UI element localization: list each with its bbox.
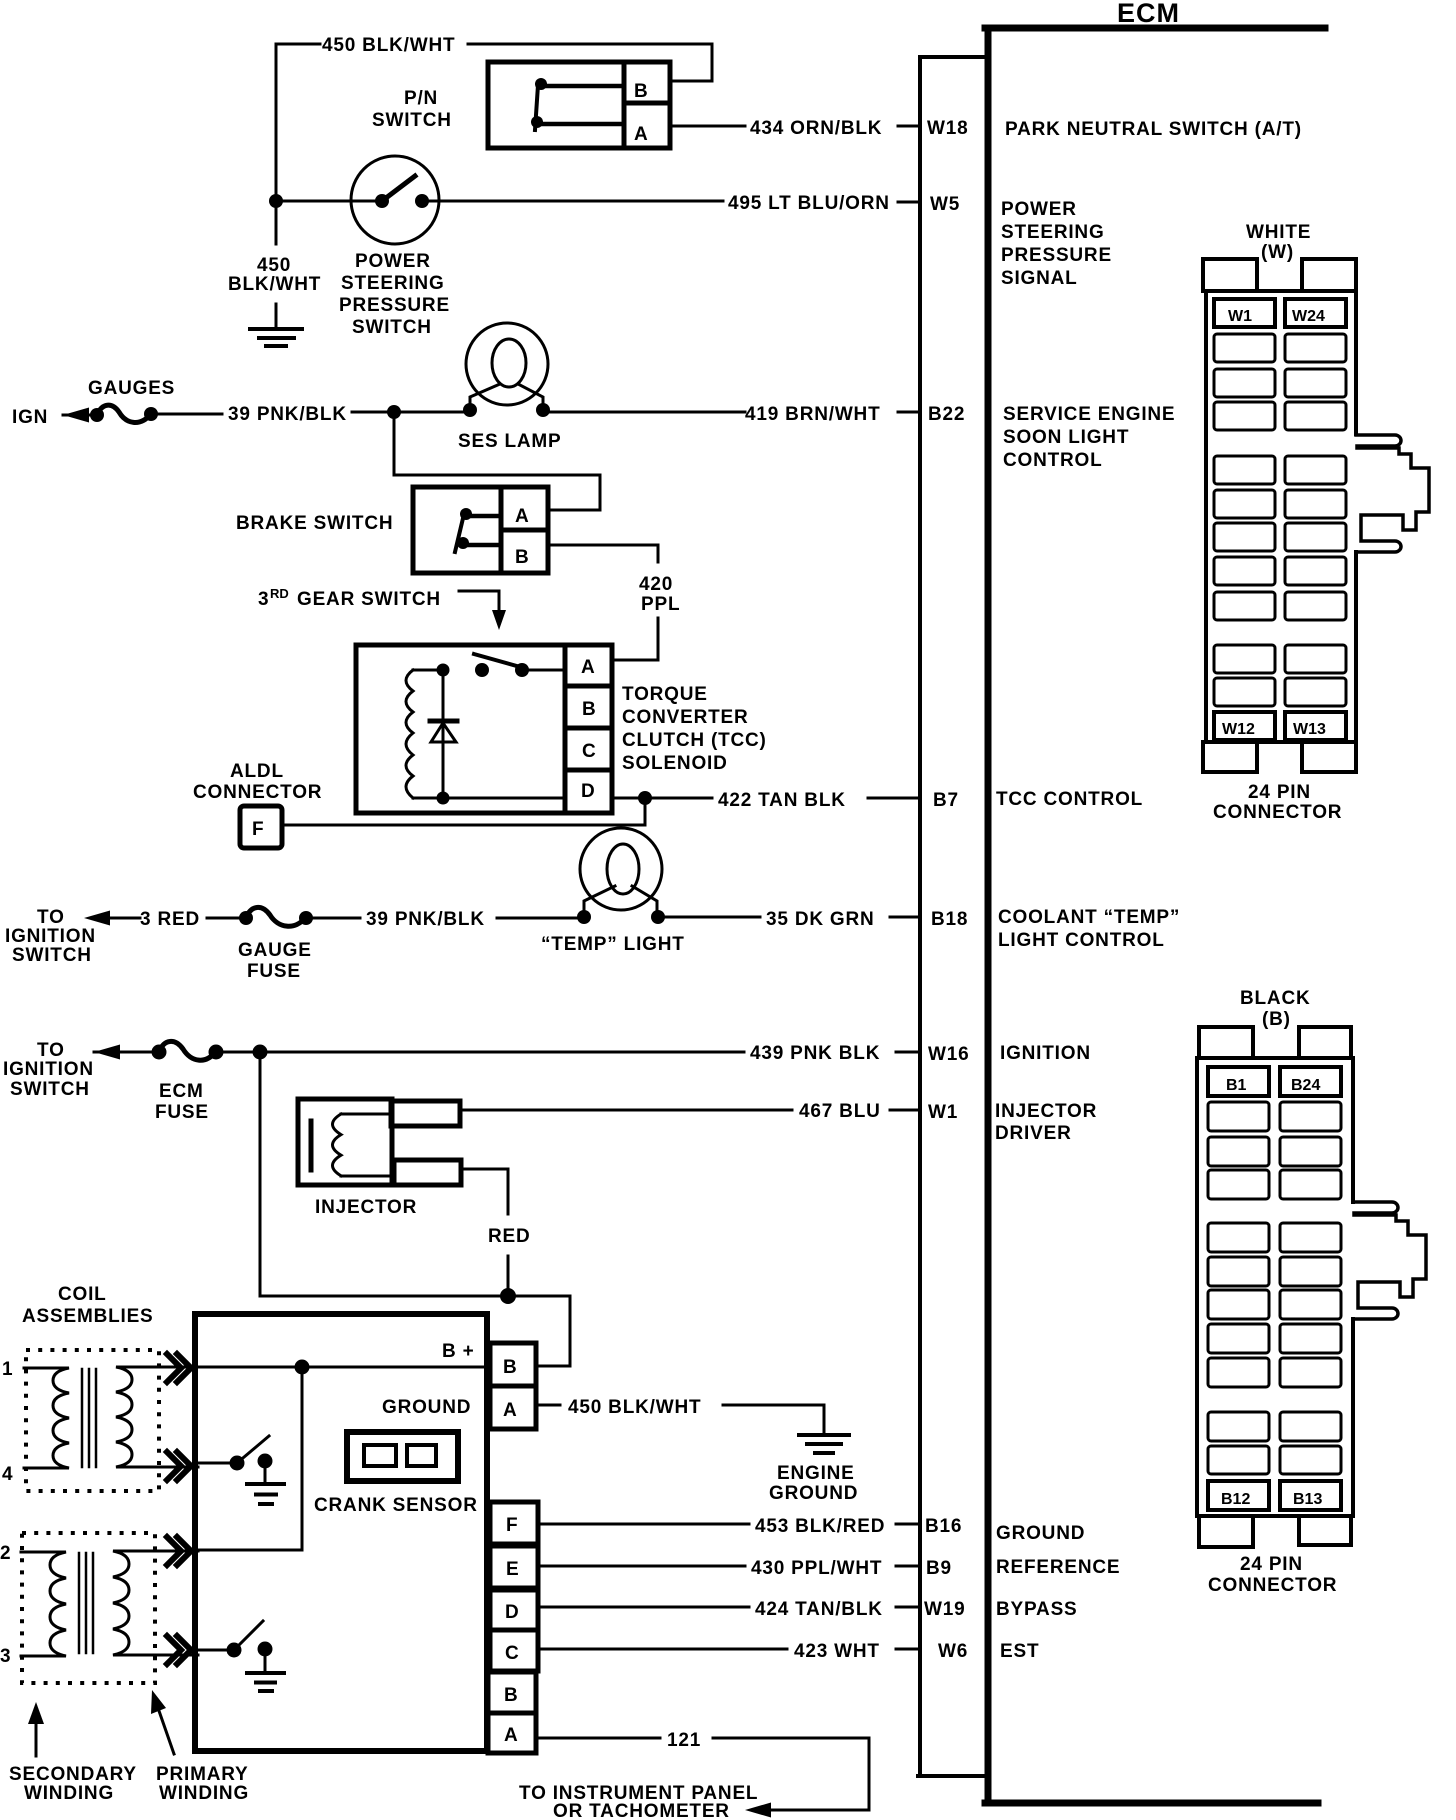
svg-text:453 BLK/RED: 453 BLK/RED (755, 1516, 885, 1537)
black connector pin B1 (1208, 1067, 1269, 1096)
svg-text:D: D (505, 1602, 520, 1623)
wire 121 run to instrument panel (713, 1738, 869, 1810)
arrow to ignition switch (ECM fuse row) (94, 1051, 159, 1054)
wire SES junction to brake switch A (394, 412, 600, 510)
module switch 1 wire (198, 1462, 235, 1465)
arrow primary winding (158, 1708, 174, 1754)
coil module box (195, 1314, 487, 1751)
svg-text:RED: RED (488, 1226, 531, 1247)
white connector cells rows5-9 left (1214, 456, 1275, 484)
module switch 2 (227, 1643, 242, 1658)
wire brake B to 420 PPL (549, 545, 658, 660)
wire 453 BLK/RED (538, 1523, 749, 1526)
white connector pin W24 (1285, 299, 1346, 327)
svg-text:3: 3 (0, 1646, 11, 1667)
arrow secondary winding (35, 1720, 38, 1756)
svg-text:COIL: COIL (58, 1284, 107, 1305)
svg-text:A: A (503, 1400, 518, 1421)
svg-text:COOLANT “TEMP”: COOLANT “TEMP” (998, 907, 1180, 928)
fuse ECM FUSE (152, 1045, 167, 1060)
TCC diode line (442, 670, 445, 798)
svg-text:W13: W13 (1293, 721, 1326, 738)
svg-text:B: B (515, 547, 530, 568)
svg-text:LIGHT CONTROL: LIGHT CONTROL (998, 930, 1165, 951)
coil assembly 1 dotted box (26, 1350, 159, 1491)
svg-text:450 BLK/WHT: 450 BLK/WHT (322, 35, 455, 56)
P/N switch box (488, 62, 670, 148)
svg-text:W12: W12 (1222, 721, 1255, 738)
wire 439 PNK BLK (216, 1051, 744, 1054)
TCC internal switch nodes (437, 664, 450, 677)
wire 121 (536, 1737, 660, 1740)
svg-text:39 PNK/BLK: 39 PNK/BLK (366, 909, 485, 930)
svg-text:3 RED: 3 RED (140, 909, 200, 930)
svg-text:B1: B1 (1226, 1077, 1247, 1094)
svg-text:W1: W1 (928, 1102, 958, 1123)
svg-text:PPL: PPL (641, 594, 680, 615)
injector terminal top (391, 1101, 460, 1126)
svg-text:ECM: ECM (1117, 0, 1180, 28)
svg-text:B9: B9 (926, 1558, 952, 1579)
node ECM fuse junction (253, 1045, 268, 1060)
svg-text:IGNITION: IGNITION (3, 1059, 94, 1080)
svg-text:WINDING: WINDING (159, 1783, 249, 1804)
svg-text:DRIVER: DRIVER (995, 1123, 1072, 1144)
ground (module switch 2) (247, 1673, 284, 1691)
white connector pin W12 (1214, 712, 1275, 740)
black connector top tab right (1299, 1027, 1351, 1058)
svg-text:450 BLK/WHT: 450 BLK/WHT (568, 1397, 701, 1418)
wire module A to 450 BLK/WHT (538, 1404, 560, 1407)
P/N switch blade (535, 85, 538, 130)
svg-text:B16: B16 (925, 1516, 962, 1537)
TCC solenoid coil (406, 670, 413, 798)
svg-text:GAUGE: GAUGE (238, 940, 312, 961)
svg-text:439 PNK BLK: 439 PNK BLK (750, 1043, 880, 1064)
svg-text:CONNECTOR: CONNECTOR (1208, 1575, 1337, 1596)
svg-text:EST: EST (1000, 1641, 1039, 1662)
node junction 450/495 (269, 194, 283, 208)
wire ALDL to D junction (282, 798, 645, 825)
svg-text:2: 2 (0, 1543, 11, 1564)
coil1 primary winding (116, 1367, 198, 1467)
white connector top tab left (1203, 259, 1257, 291)
svg-text:B: B (582, 699, 597, 720)
white connector pin W1 (1214, 299, 1275, 327)
brake switch box (413, 487, 548, 573)
wire 424 TAN/BLK (538, 1606, 749, 1609)
svg-text:PRESSURE: PRESSURE (1001, 245, 1112, 266)
svg-text:INJECTOR: INJECTOR (315, 1197, 417, 1218)
SES lamp filament (492, 339, 526, 387)
svg-text:POWER: POWER (355, 251, 431, 272)
SES lamp circle (466, 323, 548, 405)
svg-text:PARK NEUTRAL SWITCH (A/T): PARK NEUTRAL SWITCH (A/T) (1005, 119, 1302, 140)
svg-text:SWITCH: SWITCH (352, 317, 432, 338)
tick B9 (896, 1565, 920, 1568)
ECM box top line (985, 25, 1325, 32)
crank sensor box (347, 1432, 458, 1481)
TCC D wire inside (443, 797, 565, 800)
svg-text:SOLENOID: SOLENOID (622, 753, 728, 774)
svg-text:B22: B22 (928, 404, 965, 425)
coil2 core (79, 1553, 93, 1653)
SES lamp terminals (463, 403, 477, 417)
svg-text:(W): (W) (1261, 242, 1294, 263)
module terminal D2 (490, 1590, 538, 1630)
white connector bottom tab right (1302, 742, 1356, 772)
wire 450 to power steering switch (276, 200, 378, 203)
white connector key (1356, 435, 1429, 552)
ECM box left edge (985, 28, 992, 1803)
ALDL connector F box (240, 806, 282, 848)
crank sensor window right (407, 1445, 436, 1466)
chevron input 3 (167, 1636, 191, 1664)
svg-text:“TEMP” LIGHT: “TEMP” LIGHT (541, 934, 685, 955)
brake switch blade (455, 514, 464, 552)
TCC coil top connect (413, 669, 443, 672)
svg-text:IGN: IGN (12, 407, 48, 428)
white connector top tab right (1302, 259, 1356, 291)
black connector cells rows5-9 left (1208, 1223, 1269, 1252)
chevron input 2 (167, 1537, 191, 1565)
svg-text:422 TAN BLK: 422 TAN BLK (718, 790, 846, 811)
tick B22 (898, 411, 920, 414)
svg-text:424 TAN/BLK: 424 TAN/BLK (755, 1599, 883, 1620)
wire vertical 450 BLK/WHT drop (275, 44, 278, 327)
black connector pin B12 (1208, 1481, 1269, 1510)
svg-text:RD: RD (270, 586, 289, 601)
svg-text:1: 1 (2, 1359, 13, 1380)
svg-text:420: 420 (639, 574, 673, 595)
arrow to IGN (63, 414, 97, 417)
svg-text:ALDL: ALDL (230, 761, 284, 782)
svg-text:GROUND: GROUND (996, 1523, 1085, 1544)
svg-text:FUSE: FUSE (155, 1102, 209, 1123)
svg-text:CONNECTOR: CONNECTOR (1213, 802, 1342, 823)
svg-text:B24: B24 (1291, 1077, 1320, 1094)
chevron input 1 (167, 1354, 191, 1382)
TEMP light circle (580, 828, 662, 910)
svg-text:SERVICE ENGINE: SERVICE ENGINE (1003, 404, 1175, 425)
svg-text:495 LT BLU/ORN: 495 LT BLU/ORN (728, 193, 890, 214)
white connector cells rows10-11 right (1285, 645, 1346, 673)
wire 39 PNK/BLK (temp row) (497, 917, 584, 920)
svg-text:BYPASS: BYPASS (996, 1599, 1078, 1620)
svg-text:B7: B7 (933, 790, 959, 811)
coil1 core (82, 1369, 96, 1467)
svg-text:F: F (252, 819, 264, 840)
svg-text:TCC CONTROL: TCC CONTROL (996, 789, 1143, 810)
svg-text:B: B (503, 1357, 518, 1378)
power steering switch blade (382, 176, 415, 201)
svg-text:B: B (634, 81, 649, 102)
wire B+ to coil2 primary (198, 1367, 302, 1550)
injector bar (309, 1121, 314, 1170)
svg-text:SWITCH: SWITCH (12, 945, 92, 966)
svg-text:P/N: P/N (404, 88, 438, 109)
svg-text:B +: B + (442, 1341, 475, 1362)
svg-text:450: 450 (257, 255, 291, 276)
svg-text:B: B (504, 1685, 519, 1706)
svg-text:STEERING: STEERING (341, 273, 445, 294)
TCC diode (430, 719, 457, 724)
svg-text:W18: W18 (927, 118, 968, 139)
wire gauge fuse to 39 label (306, 917, 360, 920)
wire 422 to bus (868, 797, 920, 800)
wire ECM fuse drop (260, 1052, 570, 1366)
wire to SES junction (352, 411, 745, 414)
tick W18 (898, 125, 920, 128)
black connector cells rows10-11 right (1280, 1412, 1341, 1441)
module terminal F (490, 1502, 538, 1544)
svg-text:35 DK GRN: 35 DK GRN (766, 909, 875, 930)
module switch 2 wire (198, 1649, 232, 1652)
coil assembly 2 dotted box (22, 1533, 155, 1683)
svg-text:STEERING: STEERING (1001, 222, 1105, 243)
TCC terminal divider (565, 645, 610, 813)
svg-text:419 BRN/WHT: 419 BRN/WHT (745, 404, 880, 425)
svg-text:467 BLU: 467 BLU (799, 1101, 881, 1122)
svg-text:4: 4 (2, 1464, 13, 1485)
TEMP light terminals (577, 910, 591, 924)
svg-text:FUSE: FUSE (247, 961, 301, 982)
wire to engine ground (723, 1405, 824, 1433)
svg-text:OR TACHOMETER: OR TACHOMETER (553, 1801, 730, 1820)
svg-text:W6: W6 (938, 1641, 968, 1662)
wire 423 WHT (538, 1648, 787, 1651)
wire 3 RED (207, 917, 246, 920)
svg-text:TORQUE: TORQUE (622, 684, 708, 705)
black connector cells rows10-11 left (1208, 1412, 1269, 1441)
wire B+ feed (536, 1296, 570, 1366)
wire 467 BLU (460, 1109, 792, 1112)
wire 430 PPL/WHT (538, 1565, 745, 1568)
svg-text:W5: W5 (930, 194, 960, 215)
node RED junction (500, 1288, 516, 1304)
svg-text:SOON LIGHT: SOON LIGHT (1003, 427, 1129, 448)
svg-text:BRAKE SWITCH: BRAKE SWITCH (236, 513, 393, 534)
TCC switch wire to A (522, 669, 565, 672)
svg-text:ECM: ECM (159, 1081, 204, 1102)
svg-text:CONNECTOR: CONNECTOR (193, 782, 322, 803)
white connector cells rows2-4 left (1214, 334, 1275, 362)
white connector cells rows2-4 right (1285, 334, 1346, 362)
svg-text:W24: W24 (1292, 308, 1325, 325)
svg-text:CONTROL: CONTROL (1003, 450, 1103, 471)
wire 35 DK GRN (658, 916, 760, 919)
svg-text:GAUGES: GAUGES (88, 378, 175, 399)
TCC solenoid box (356, 645, 612, 813)
wire 450 BLK/WHT top run (276, 44, 712, 81)
svg-text:W19: W19 (924, 1599, 965, 1620)
svg-text:BLACK: BLACK (1240, 988, 1311, 1009)
tick W5 (898, 201, 920, 204)
svg-text:39 PNK/BLK: 39 PNK/BLK (228, 404, 347, 425)
wire 39 PNK/BLK (SES row) (151, 413, 222, 416)
tick W6 (896, 1648, 920, 1651)
svg-text:SWITCH: SWITCH (10, 1079, 90, 1100)
tick B18 (890, 916, 920, 919)
svg-text:(B): (B) (1262, 1009, 1291, 1030)
module terminal A2 (488, 1713, 536, 1753)
svg-text:SECONDARY: SECONDARY (9, 1764, 137, 1785)
svg-text:B13: B13 (1293, 1491, 1322, 1508)
coil2 primary winding (113, 1551, 198, 1655)
P/N switch contacts (535, 78, 547, 90)
svg-text:ASSEMBLIES: ASSEMBLIES (22, 1306, 154, 1327)
svg-text:IGNITION: IGNITION (1000, 1043, 1091, 1064)
black connector key (1353, 1202, 1426, 1319)
svg-text:CRANK SENSOR: CRANK SENSOR (314, 1495, 478, 1516)
svg-text:SIGNAL: SIGNAL (1001, 268, 1078, 289)
svg-text:430 PPL/WHT: 430 PPL/WHT (751, 1558, 882, 1579)
injector terminal bottom (394, 1160, 461, 1185)
injector coil (333, 1114, 395, 1176)
svg-text:W16: W16 (928, 1044, 969, 1065)
white connector cells rows5-9 right (1285, 456, 1346, 484)
svg-text:TO: TO (37, 1040, 65, 1061)
wire RED from injector (461, 1169, 508, 1296)
black connector body (1197, 1058, 1353, 1516)
injector box (298, 1099, 392, 1185)
svg-text:GEAR SWITCH: GEAR SWITCH (297, 589, 441, 610)
svg-text:BLK/WHT: BLK/WHT (228, 274, 321, 295)
module terminal B (490, 1343, 536, 1386)
svg-text:C: C (505, 1643, 520, 1664)
module terminal E (490, 1546, 538, 1588)
power steering switch contacts (375, 194, 389, 208)
svg-text:423 WHT: 423 WHT (794, 1641, 880, 1662)
fuse GAUGE FUSE (239, 911, 253, 925)
svg-text:WHITE: WHITE (1246, 222, 1311, 243)
svg-text:ENGINE: ENGINE (777, 1463, 855, 1484)
black connector pin B24 (1280, 1067, 1341, 1096)
wire 495 LT BLU/ORN (426, 200, 723, 203)
black connector bottom tab right (1299, 1516, 1351, 1545)
svg-text:3: 3 (258, 589, 269, 610)
TEMP light filament (607, 844, 639, 894)
wire 434 ORN/BLK (672, 125, 745, 128)
svg-text:POWER: POWER (1001, 199, 1077, 220)
svg-text:121: 121 (667, 1730, 701, 1751)
tick W16 (896, 1051, 920, 1054)
svg-text:REFERENCE: REFERENCE (996, 1557, 1120, 1578)
fuse GAUGES (90, 408, 104, 422)
coil2 secondary winding (21, 1552, 66, 1656)
TCC switch blade (474, 654, 524, 668)
black connector cells rows2-4 left (1208, 1102, 1269, 1131)
svg-text:GROUND: GROUND (382, 1397, 471, 1418)
svg-text:24 PIN: 24 PIN (1240, 1554, 1303, 1575)
node D junction (638, 791, 652, 805)
brake switch contacts (460, 508, 472, 520)
svg-text:B12: B12 (1221, 1491, 1250, 1508)
arrow to instrument panel (745, 1803, 771, 1818)
svg-text:PRESSURE: PRESSURE (339, 295, 450, 316)
ECM pin strip top edge (920, 55, 985, 59)
svg-text:B18: B18 (931, 909, 968, 930)
ground (engine) (799, 1435, 849, 1453)
tick W1 (890, 1109, 920, 1112)
crank sensor window left (364, 1445, 396, 1466)
module switch 1 (230, 1456, 245, 1471)
black connector cells rows5-9 right (1280, 1223, 1341, 1252)
module terminal A (490, 1386, 536, 1429)
svg-text:E: E (506, 1559, 519, 1580)
ECM box bottom line (985, 1800, 1318, 1807)
svg-text:SWITCH: SWITCH (372, 110, 452, 131)
white connector pin W13 (1285, 712, 1346, 740)
TEMP light leads (584, 886, 657, 915)
svg-text:434 ORN/BLK: 434 ORN/BLK (750, 118, 882, 139)
svg-text:A: A (581, 657, 596, 678)
arrow 3rd gear switch (459, 591, 499, 611)
svg-text:A: A (504, 1725, 519, 1746)
svg-text:A: A (515, 506, 530, 527)
ECM pin strip left edge (918, 57, 922, 1776)
svg-text:F: F (506, 1515, 518, 1536)
arrow to ignition switch (gauge row) (103, 917, 140, 920)
svg-text:24 PIN: 24 PIN (1248, 782, 1311, 803)
svg-text:CONVERTER: CONVERTER (622, 707, 749, 728)
coil1 secondary winding (24, 1368, 69, 1468)
ECM pin strip bottom edge (918, 1774, 985, 1778)
svg-text:INJECTOR: INJECTOR (995, 1101, 1097, 1122)
svg-text:SES LAMP: SES LAMP (458, 431, 562, 452)
svg-text:CLUTCH (TCC): CLUTCH (TCC) (622, 730, 767, 751)
chevron input 4 (167, 1452, 191, 1480)
tick W19 (896, 1606, 920, 1609)
white connector bottom tab left (1203, 742, 1257, 772)
node SES junction (387, 405, 401, 419)
svg-text:GROUND: GROUND (769, 1483, 858, 1504)
svg-text:TO: TO (37, 907, 65, 928)
ground (module switch 1) (247, 1484, 284, 1504)
module terminal B2 (488, 1672, 536, 1713)
white connector body (1206, 291, 1356, 742)
wire B+ rail (198, 1366, 490, 1369)
TCC coil bottom connect (413, 797, 443, 800)
SES lamp leads (470, 384, 543, 409)
svg-text:WINDING: WINDING (24, 1783, 114, 1804)
svg-text:IGNITION: IGNITION (5, 926, 96, 947)
power steering pressure switch circle (351, 156, 439, 244)
wire 422 TAN/BLK from D (612, 797, 712, 800)
svg-text:W1: W1 (1228, 308, 1252, 325)
svg-text:C: C (582, 741, 597, 762)
black connector cells rows2-4 right (1280, 1102, 1341, 1131)
black connector pin B13 (1280, 1481, 1341, 1510)
tick B16 (896, 1523, 920, 1526)
svg-text:D: D (581, 781, 596, 802)
module terminal C2 (490, 1630, 538, 1671)
brake switch terminal divider (501, 487, 547, 573)
ground (450 BLK/WHT) (250, 329, 302, 346)
black connector top tab left (1199, 1027, 1253, 1058)
black connector bottom tab left (1199, 1516, 1253, 1547)
P/N switch terminal divider (624, 62, 670, 148)
svg-text:A: A (634, 124, 649, 145)
svg-text:PRIMARY: PRIMARY (156, 1764, 249, 1785)
white connector cells rows10-11 left (1214, 645, 1275, 673)
node B+ junction (295, 1360, 310, 1375)
